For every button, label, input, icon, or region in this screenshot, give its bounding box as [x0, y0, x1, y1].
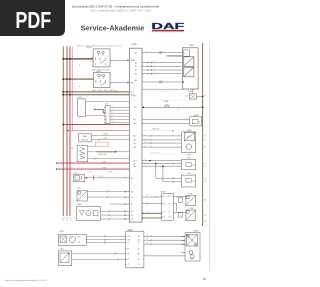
svg-text:C8878: C8878 — [59, 231, 64, 233]
svg-text:C8V: C8V — [138, 239, 141, 241]
svg-text:CF8-2: CF8-2 — [77, 188, 82, 190]
svg-text:1.5: 1.5 — [146, 51, 148, 53]
svg-text:5/8708: 5/8708 — [86, 47, 91, 49]
svg-text:C8 8: C8 8 — [185, 96, 188, 98]
svg-text:Network: Network — [82, 139, 89, 142]
svg-text:1-188: 1-188 — [192, 165, 196, 167]
svg-text:Service-Akademie: Service-Akademie — [81, 24, 145, 33]
svg-text:B4: B4 — [133, 60, 135, 62]
svg-text:C8448: C8448 — [187, 91, 192, 93]
svg-text:C87 92 C87 93: C87 92 C87 93 — [150, 152, 160, 154]
svg-text:PDF: PDF — [15, 8, 51, 34]
svg-text:6-88: 6-88 — [105, 104, 108, 106]
svg-text:B8U: B8U — [134, 123, 137, 125]
svg-text:1.5: 1.5 — [109, 190, 111, 192]
svg-text:C8888: C8888 — [164, 101, 169, 103]
svg-text:B8 8 1.8: B8 8 1.8 — [98, 176, 103, 178]
svg-text:B4: B4 — [135, 62, 137, 64]
svg-text:C84: C84 — [138, 236, 141, 238]
svg-text:B81: B81 — [127, 253, 130, 255]
svg-text:B8: B8 — [169, 196, 171, 198]
svg-text:-8793: -8793 — [187, 173, 191, 175]
svg-text:1: 1 — [106, 107, 107, 109]
svg-text:1.5: 1.5 — [69, 217, 71, 219]
svg-text:B.8: B.8 — [131, 211, 134, 213]
svg-text:B8: B8 — [127, 249, 129, 251]
svg-text:C8: C8 — [138, 264, 140, 266]
svg-text:B.8: B.8 — [131, 191, 134, 193]
svg-text:CAN: CAN — [83, 135, 88, 138]
svg-text:C8V: C8V — [127, 239, 130, 241]
svg-text:B8U: B8U — [134, 166, 137, 168]
svg-text:1.5: 1.5 — [154, 61, 156, 63]
svg-text:C84: C84 — [127, 236, 130, 238]
svg-text:B8: B8 — [138, 259, 140, 261]
svg-text:1.8: 1.8 — [147, 212, 149, 214]
svg-text:B8 8B: B8 8B — [109, 171, 113, 173]
svg-text:2: 2 — [76, 178, 77, 180]
svg-text:httpc.tachographen-zentrale.de: httpc.tachographen-zentrale.de 2.13.04 — [5, 279, 47, 282]
svg-text:B.7: B.7 — [131, 204, 134, 206]
svg-text:1.8: 1.8 — [112, 118, 114, 120]
svg-text:B88: B88 — [134, 147, 137, 149]
svg-text:B8: B8 — [147, 195, 149, 197]
svg-text:C8 8B: C8 8B — [89, 171, 93, 173]
svg-text:4-Weg-Ven: 4-Weg-Ven — [98, 154, 106, 156]
svg-text:B4: B4 — [135, 53, 137, 55]
svg-text:1.8: 1.8 — [112, 106, 114, 108]
svg-text:1.8: 1.8 — [131, 197, 133, 199]
svg-text:DAF: DAF — [151, 22, 184, 31]
svg-text:B8: B8 — [134, 163, 136, 165]
svg-text:B13.2- B4.2 B13.2- B4.2 B13.: B13.2- B4.2 B13.2- B4.2 B13.2- B4.2 — [77, 46, 121, 48]
svg-text:4: 4 — [184, 59, 185, 61]
svg-text:C8848: C8848 — [103, 134, 108, 136]
svg-text:B81: B81 — [138, 253, 141, 255]
svg-text:5: 5 — [106, 119, 107, 121]
svg-text:b: b — [79, 86, 80, 88]
svg-text:B8: B8 — [134, 107, 136, 109]
svg-text:C8: C8 — [127, 264, 129, 266]
svg-text:4: 4 — [106, 116, 107, 118]
svg-text:4: 4 — [184, 69, 185, 71]
svg-text:1.5: 1.5 — [111, 217, 113, 219]
svg-text:A1: A1 — [131, 81, 133, 84]
svg-text:15: 15 — [66, 220, 68, 222]
svg-text:B1: B1 — [135, 73, 137, 75]
svg-text:1.5: 1.5 — [154, 68, 156, 70]
svg-text:B8: B8 — [134, 95, 136, 97]
svg-text:1.8: 1.8 — [112, 112, 114, 114]
svg-text:B8: B8 — [134, 136, 136, 138]
svg-text:C8: C8 — [127, 242, 129, 244]
svg-text:1.8: 1.8 — [112, 109, 114, 111]
svg-text:B1: B1 — [135, 66, 137, 68]
svg-text:A.7: A.7 — [131, 177, 134, 180]
svg-text:1.8: 1.8 — [131, 215, 133, 217]
svg-text:1.8: 1.8 — [169, 212, 171, 214]
svg-text:1.5: 1.5 — [109, 195, 111, 197]
svg-text:B3: B3 — [135, 70, 137, 72]
svg-text:1.8: 1.8 — [112, 121, 114, 123]
svg-text:CF8-2: CF8-2 — [59, 248, 64, 250]
svg-text:30: 30 — [70, 220, 72, 222]
svg-text:1.8: 1.8 — [131, 219, 133, 221]
svg-text:ε: ε — [81, 109, 82, 111]
svg-text:B.8: B.8 — [163, 217, 165, 219]
svg-text:B: B — [199, 122, 200, 124]
svg-text:C8807: C8807 — [77, 204, 82, 206]
svg-text:C8: C8 — [138, 242, 140, 244]
svg-text:B.8: B.8 — [131, 92, 134, 94]
svg-text:1.5: 1.5 — [154, 72, 156, 74]
svg-text:1.5: 1.5 — [154, 65, 156, 67]
svg-text:B.8: B.8 — [169, 217, 171, 219]
svg-text:B8U: B8U — [134, 140, 137, 142]
svg-text:3: 3 — [106, 113, 107, 115]
svg-text:C8849: C8849 — [103, 138, 108, 140]
svg-text:1.8: 1.8 — [163, 212, 165, 214]
svg-text:CF88: CF88 — [189, 193, 193, 195]
svg-text:B.8: B.8 — [163, 196, 165, 198]
svg-text:2: 2 — [106, 110, 107, 112]
svg-text:-8792: -8792 — [187, 158, 191, 160]
svg-text:C8792: C8792 — [187, 155, 192, 157]
svg-text:6/8937: 6/8937 — [187, 130, 192, 132]
svg-text:C8078 (2): C8078 (2) — [152, 129, 160, 131]
svg-text:C847B: C847B — [131, 44, 138, 46]
svg-text:1.5: 1.5 — [62, 217, 64, 219]
svg-text:B8: B8 — [127, 259, 129, 261]
svg-text:C8F: C8F — [71, 148, 74, 150]
svg-text:B8: B8 — [138, 249, 140, 251]
svg-text:1.5: 1.5 — [111, 209, 113, 211]
svg-text:C8887: C8887 — [194, 231, 199, 233]
svg-text:B8: B8 — [134, 119, 136, 121]
svg-text:C7868: C7868 — [188, 45, 194, 47]
svg-text:1.8: 1.8 — [112, 115, 114, 117]
svg-text:B8: B8 — [134, 143, 136, 145]
svg-text:6: 6 — [106, 122, 107, 124]
svg-text:B8: B8 — [169, 203, 171, 205]
svg-text:1.5: 1.5 — [66, 217, 68, 219]
svg-text:31: 31 — [62, 220, 64, 222]
svg-text:Stromlaufplan EBS 2 DAF XF 105: Stromlaufplan EBS 2 DAF XF 105 — [90, 8, 151, 12]
svg-text:1-188: 1-188 — [192, 181, 196, 183]
svg-text:C8 88 C8 88: C8 88 C8 88 — [160, 91, 167, 93]
